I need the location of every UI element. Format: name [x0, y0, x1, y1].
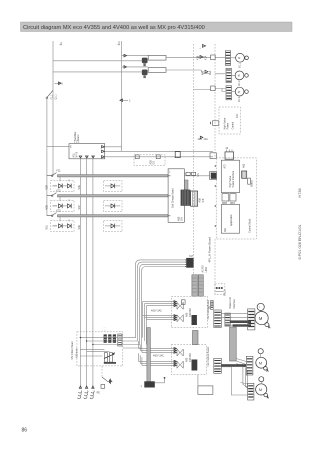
routing rectangle: [198, 386, 213, 395]
svg-text:Power: Power: [227, 123, 230, 130]
wire NF out 2: [105, 150, 213, 152]
thyristor module V38 dashed box: [104, 220, 122, 231]
wire branch y66.9: [122, 66, 149, 68]
svg-text:F1.1: F1.1: [50, 94, 53, 99]
svg-text:Interface: Interface: [233, 299, 236, 309]
svg-text:V38: V38: [78, 225, 81, 230]
svg-text:Brake Unit: Brake Unit: [229, 297, 232, 308]
svg-text:4PL_H Power Board: 4PL_H Power Board: [208, 237, 212, 263]
label A1700: [202, 265, 208, 273]
wire L3 vertical feed: [121, 41, 123, 151]
svg-text:Control: Control: [231, 121, 234, 129]
thick cable to motor 2: [221, 364, 246, 367]
wire T1 output: [166, 57, 211, 59]
svg-text:S/A: S/A: [181, 217, 184, 221]
jumper block 3B8: [222, 194, 229, 205]
filter internal wires: [80, 337, 118, 356]
arrow continuation mark on L3: [120, 99, 131, 103]
node label 1L1: [60, 41, 64, 46]
svg-text:S/B: S/B: [202, 198, 205, 202]
contactor block U36: [191, 191, 198, 206]
fan terminal strip 3: [226, 86, 232, 100]
svg-text:F21: F21: [57, 170, 62, 173]
connector X50: [197, 172, 217, 180]
soft charge board A80: [168, 169, 184, 223]
diagonal wires into motor2 strip: [236, 359, 246, 368]
svg-text:F22: F22: [57, 190, 62, 193]
fan motor M1.1: [231, 53, 249, 68]
status connector: [248, 178, 254, 187]
plug symbol row1: [177, 302, 183, 309]
svg-text:MX_A: MX_A: [224, 289, 227, 296]
fuse F4.1: [142, 58, 148, 67]
MV filter dashed box: [77, 332, 123, 366]
breaker F22: [47, 190, 61, 197]
fan terminal strip 2: [226, 68, 231, 82]
svg-text:V37: V37: [78, 205, 81, 210]
main switch Q1: [46, 90, 57, 99]
fan feed label row1b: [199, 45, 206, 50]
svg-text:M: M: [259, 361, 262, 365]
relay module K42: [225, 147, 234, 159]
filter capacitors C30: [104, 334, 116, 342]
labels 42B 42A: [198, 136, 209, 141]
motor 1 terminal strip: [248, 309, 255, 330]
wire row2 to strip: [215, 73, 225, 75]
svg-text:400/460: 400/460: [189, 353, 192, 362]
svg-text:1L1: 1L1: [60, 41, 63, 46]
label Netzfilter Board: [74, 131, 80, 141]
svg-text:Status: Status: [251, 179, 254, 187]
wire loop to motor 3: [221, 367, 247, 395]
X2 strip: [225, 313, 230, 326]
svg-text:400V 3AC: 400V 3AC: [153, 354, 164, 357]
wire T2 output: [166, 70, 211, 74]
bus line U: [79, 159, 81, 388]
AC bus band 2: [58, 195, 169, 197]
gate supply board A50 dashed: [134, 155, 165, 166]
motor M2.3: [256, 377, 269, 399]
boundary dashed line inner: [192, 44, 194, 296]
svg-text:400V 3AC: 400V 3AC: [151, 310, 162, 313]
thick cable lower: [233, 324, 251, 326]
arrow mark on branch y55.6: [124, 54, 127, 57]
wire bundle line 2: [123, 262, 186, 341]
svg-text:F23: F23: [57, 210, 62, 213]
svg-text:NF-B: NF-B: [76, 152, 79, 158]
A72 high noise power interface board: [221, 160, 239, 192]
motor M2.1: [255, 303, 270, 328]
thyristor module V29 dashed box: [51, 177, 74, 192]
wire row3 to strip: [215, 89, 225, 92]
ribbon A extension into board2: [193, 331, 199, 345]
terminal X1 row1: [211, 55, 216, 60]
svg-text:1L3: 1L3: [118, 41, 121, 46]
wire fan row3 feed: [194, 89, 211, 91]
svg-text:A63: A63: [243, 163, 246, 168]
svg-text:Power Interface: Power Interface: [232, 170, 235, 187]
fan motor M1.3: [232, 87, 249, 102]
wire bundle line 1: [123, 260, 186, 338]
svg-text:MV (Filter) Board: MV (Filter) Board: [71, 341, 74, 360]
svg-text:Control Block: Control Block: [249, 218, 252, 233]
filter resistor stack R30: [104, 353, 114, 363]
tick mark left of terminal: [210, 122, 212, 124]
output coil 1V2: [84, 386, 88, 399]
thyristor module V28 dashed box: [51, 197, 74, 212]
bus line W: [92, 159, 94, 388]
fan terminal strip 1: [225, 51, 230, 66]
svg-text:X17: X17: [189, 255, 194, 258]
svg-text:86: 86: [22, 428, 28, 434]
breaker F23: [47, 210, 61, 217]
fan board 2 feed wires top: [139, 347, 177, 353]
wire branch y60.8: [53, 60, 142, 62]
wire NF out 3: [105, 156, 213, 158]
svg-text:400/460: 400/460: [189, 308, 192, 317]
svg-text:Q1.1: Q1.1: [54, 94, 57, 100]
svg-text:M1.3: M1.3: [238, 96, 241, 102]
svg-text:GS: GS: [153, 161, 156, 165]
wide ribbon down to motor 2: [230, 327, 237, 361]
fan feed arrows row1: [197, 55, 208, 60]
fan board 2 feed wires bottom: [139, 360, 177, 366]
small comp on fan board 1: [182, 300, 186, 305]
svg-text:PE: PE: [97, 391, 101, 394]
fan motor M1.2: [231, 71, 248, 86]
motor M2.2: [256, 349, 269, 372]
filter resistor bottom bar: [104, 362, 116, 364]
svg-text:Fan Control Board: Fan Control Board: [207, 299, 210, 319]
svg-text:41A: 41A: [209, 70, 212, 75]
control block dashed frame: [216, 158, 256, 239]
svg-text:L650: L650: [205, 267, 208, 273]
capacitor group right of soft charge: [184, 172, 195, 175]
label A90 board2: [186, 353, 192, 362]
motor 3 terminal strip: [248, 383, 254, 400]
interface junction box: [175, 152, 180, 158]
AC bus band 1: [58, 175, 169, 177]
transformer T2 box: [148, 68, 166, 73]
capacitor labels above: [103, 325, 107, 331]
filter temp switch: [97, 366, 112, 394]
svg-text:M: M: [259, 388, 262, 392]
fan board 1 feed wires top: [143, 301, 177, 307]
wire NF out 1: [105, 146, 122, 148]
arrow continuation mark 2: [55, 82, 64, 86]
label A90: [186, 308, 192, 317]
wire to netzfilter board: [47, 146, 69, 148]
plug symbol row2: [177, 315, 183, 322]
svg-text:2.2.2: 2.2.2: [74, 141, 80, 144]
svg-text:A72: A72: [224, 164, 227, 169]
svg-text:41B: 41B: [197, 55, 200, 60]
wire left rail: [46, 99, 48, 216]
jumper block 3B4: [230, 194, 236, 205]
svg-text:A61: A61: [224, 227, 227, 232]
feed stub verticals: [143, 302, 147, 345]
ribbon soft charge to resistor: [184, 180, 188, 190]
power board connector X1700: [185, 255, 194, 268]
svg-text:H736: H736: [298, 188, 302, 197]
node label 1L3: [118, 41, 122, 46]
small tick connector: [208, 301, 213, 310]
svg-text:Circuit diagram MX eco 4V355 a: Circuit diagram MX eco 4V355 and 4V400 a…: [23, 25, 205, 31]
motor 2 terminal strip: [246, 356, 253, 375]
svg-text:V28: V28: [46, 205, 49, 210]
terminal on boundary into control board: [213, 121, 219, 126]
interface connector group: [215, 284, 225, 295]
charge resistor block R80 (hatched dark): [181, 190, 190, 206]
bus line V: [86, 159, 88, 388]
wire branch y71.9: [53, 71, 142, 73]
fan board 1 output strip: [214, 310, 222, 328]
motor 1 wires: [221, 314, 247, 326]
svg-text:Application: Application: [230, 214, 233, 226]
svg-text:M: M: [238, 91, 240, 94]
svg-text:V31: V31: [46, 225, 49, 230]
wire row1 to strip: [215, 57, 225, 59]
terminal box on boundary: [210, 153, 216, 159]
breaker F21: [47, 170, 61, 177]
svg-text:V29: V29: [46, 185, 49, 190]
wire soft charge to control: [184, 175, 209, 177]
svg-text:M1.2: M1.2: [238, 80, 241, 86]
diagonal wires into motor3 strip: [241, 383, 248, 389]
transformer T1 box: [148, 55, 166, 60]
wire from loop down: [197, 375, 199, 386]
svg-text:M1.1: M1.1: [238, 62, 241, 68]
thyristor module V37 dashed box: [104, 200, 122, 211]
svg-text:: : :: : : :: [103, 328, 107, 331]
high noise power control board dashed: [219, 107, 240, 134]
thick cable to motor 1: [230, 320, 251, 323]
ribbon to bottom connector: [147, 328, 151, 382]
thyristor module V31 dashed box: [51, 217, 74, 232]
vertical wires to motor 3: [243, 366, 248, 389]
boundary dashed line outer: [214, 44, 216, 296]
AC bus band 3: [58, 215, 169, 217]
output coil 1U2: [78, 386, 82, 399]
svg-text:41B: 41B: [202, 70, 205, 75]
inductor L63 hatched: [242, 163, 247, 178]
wire branch y55.6: [122, 55, 149, 57]
dark terminal on control block edge: [211, 173, 216, 179]
bottom ribbon connector: [141, 381, 155, 388]
label MV (Filter) Board: [71, 341, 79, 360]
ribbon cable A to fan board 1: [192, 275, 198, 296]
title bar: [21, 22, 293, 32]
output coil 1W2: [90, 386, 94, 399]
wire bundle line 4: [123, 267, 186, 349]
fan board 2 output strip: [214, 358, 222, 373]
svg-text:6 P01 026 EN-D1/01: 6 P01 026 EN-D1/01: [298, 224, 302, 259]
fan feed arrows row2: [202, 70, 213, 75]
fuse F4.2: [142, 70, 148, 79]
thyristor module V36 dashed box: [104, 180, 122, 191]
svg-text:M: M: [259, 316, 263, 321]
svg-text:M: M: [238, 75, 240, 78]
transformer dark block fan board 1: [192, 315, 197, 325]
application board A61: [221, 204, 239, 233]
transformer dark block fan board 2: [192, 360, 198, 371]
svg-text:Fan Control Board: Fan Control Board: [207, 346, 210, 366]
svg-text:V36: V36: [78, 185, 81, 190]
ribbon cable B: [198, 275, 203, 296]
wire L1 vertical feed: [52, 41, 54, 176]
arrow mark on branch y66.9: [124, 66, 127, 69]
fan board 1 feed wires bottom: [143, 315, 177, 321]
feed stub verticals fan board 2: [139, 341, 142, 352]
svg-text:Soft Charge Board: Soft Charge Board: [171, 188, 174, 208]
plug symbols board2: [177, 349, 183, 368]
wire from connector with node: [155, 377, 166, 383]
svg-text:42A: 42A: [204, 138, 209, 141]
filter output connector hatched: [118, 334, 122, 346]
svg-text:41A: 41A: [205, 55, 208, 60]
wire bundle line 3: [123, 264, 186, 344]
netzfilter board A31: [69, 141, 105, 159]
control block boundary ticks: [214, 165, 216, 227]
svg-text:M: M: [238, 57, 240, 60]
label A58 S/B: [199, 198, 205, 203]
label brake unit interface: [229, 297, 236, 308]
svg-text:42C: 42C: [236, 113, 239, 118]
terminal X1 row3: [211, 86, 216, 91]
